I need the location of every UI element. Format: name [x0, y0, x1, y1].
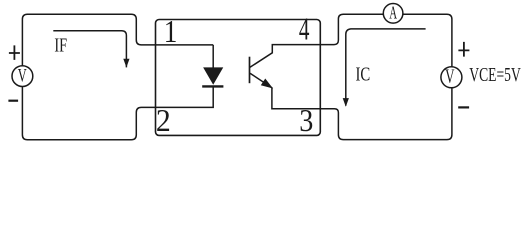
- svg-text:VCE=5V: VCE=5V: [469, 63, 521, 85]
- IC current arrow: [346, 29, 426, 106]
- svg-text:3: 3: [299, 103, 313, 139]
- svg-text:V: V: [445, 65, 454, 88]
- plus sign (left source): [9, 45, 20, 60]
- svg-text:1: 1: [164, 15, 178, 49]
- svg-text:A: A: [389, 4, 397, 23]
- plus sign (right source): [458, 42, 469, 57]
- svg-text:IF: IF: [54, 33, 67, 56]
- phototransistor collector wire to pin4 and right-loop top rail: [250, 14, 383, 67]
- svg-text:IC: IC: [356, 62, 371, 85]
- svg-text:2: 2: [156, 102, 171, 138]
- svg-text:4: 4: [299, 11, 310, 46]
- minus sign (left source): [8, 100, 18, 102]
- voltage source V1 (left): [12, 66, 33, 87]
- wire right-loop top rail to V2: [403, 14, 452, 66]
- IF current arrow: [53, 31, 126, 68]
- svg-text:V: V: [18, 66, 27, 86]
- ammeter A: [383, 4, 403, 24]
- phototransistor emitter wire from pin3: [250, 73, 320, 109]
- LED D (inside optocoupler): [204, 68, 222, 84]
- wire right side down to bottom rail and pin3 stub: [320, 88, 452, 140]
- phototransistor emitter arrow: [262, 79, 272, 87]
- optocoupler package U1: [156, 20, 321, 136]
- wire LED cathode to pin2 stub and left-loop bottom rail: [22, 87, 213, 140]
- wire left-loop top rail from V source to pin1 stub: [22, 14, 213, 66]
- wire LED anode drop: [212, 45, 214, 68]
- minus sign (right source): [458, 106, 469, 108]
- voltage source V2 (right): [441, 67, 462, 88]
- phototransistor base bar: [249, 57, 251, 83]
